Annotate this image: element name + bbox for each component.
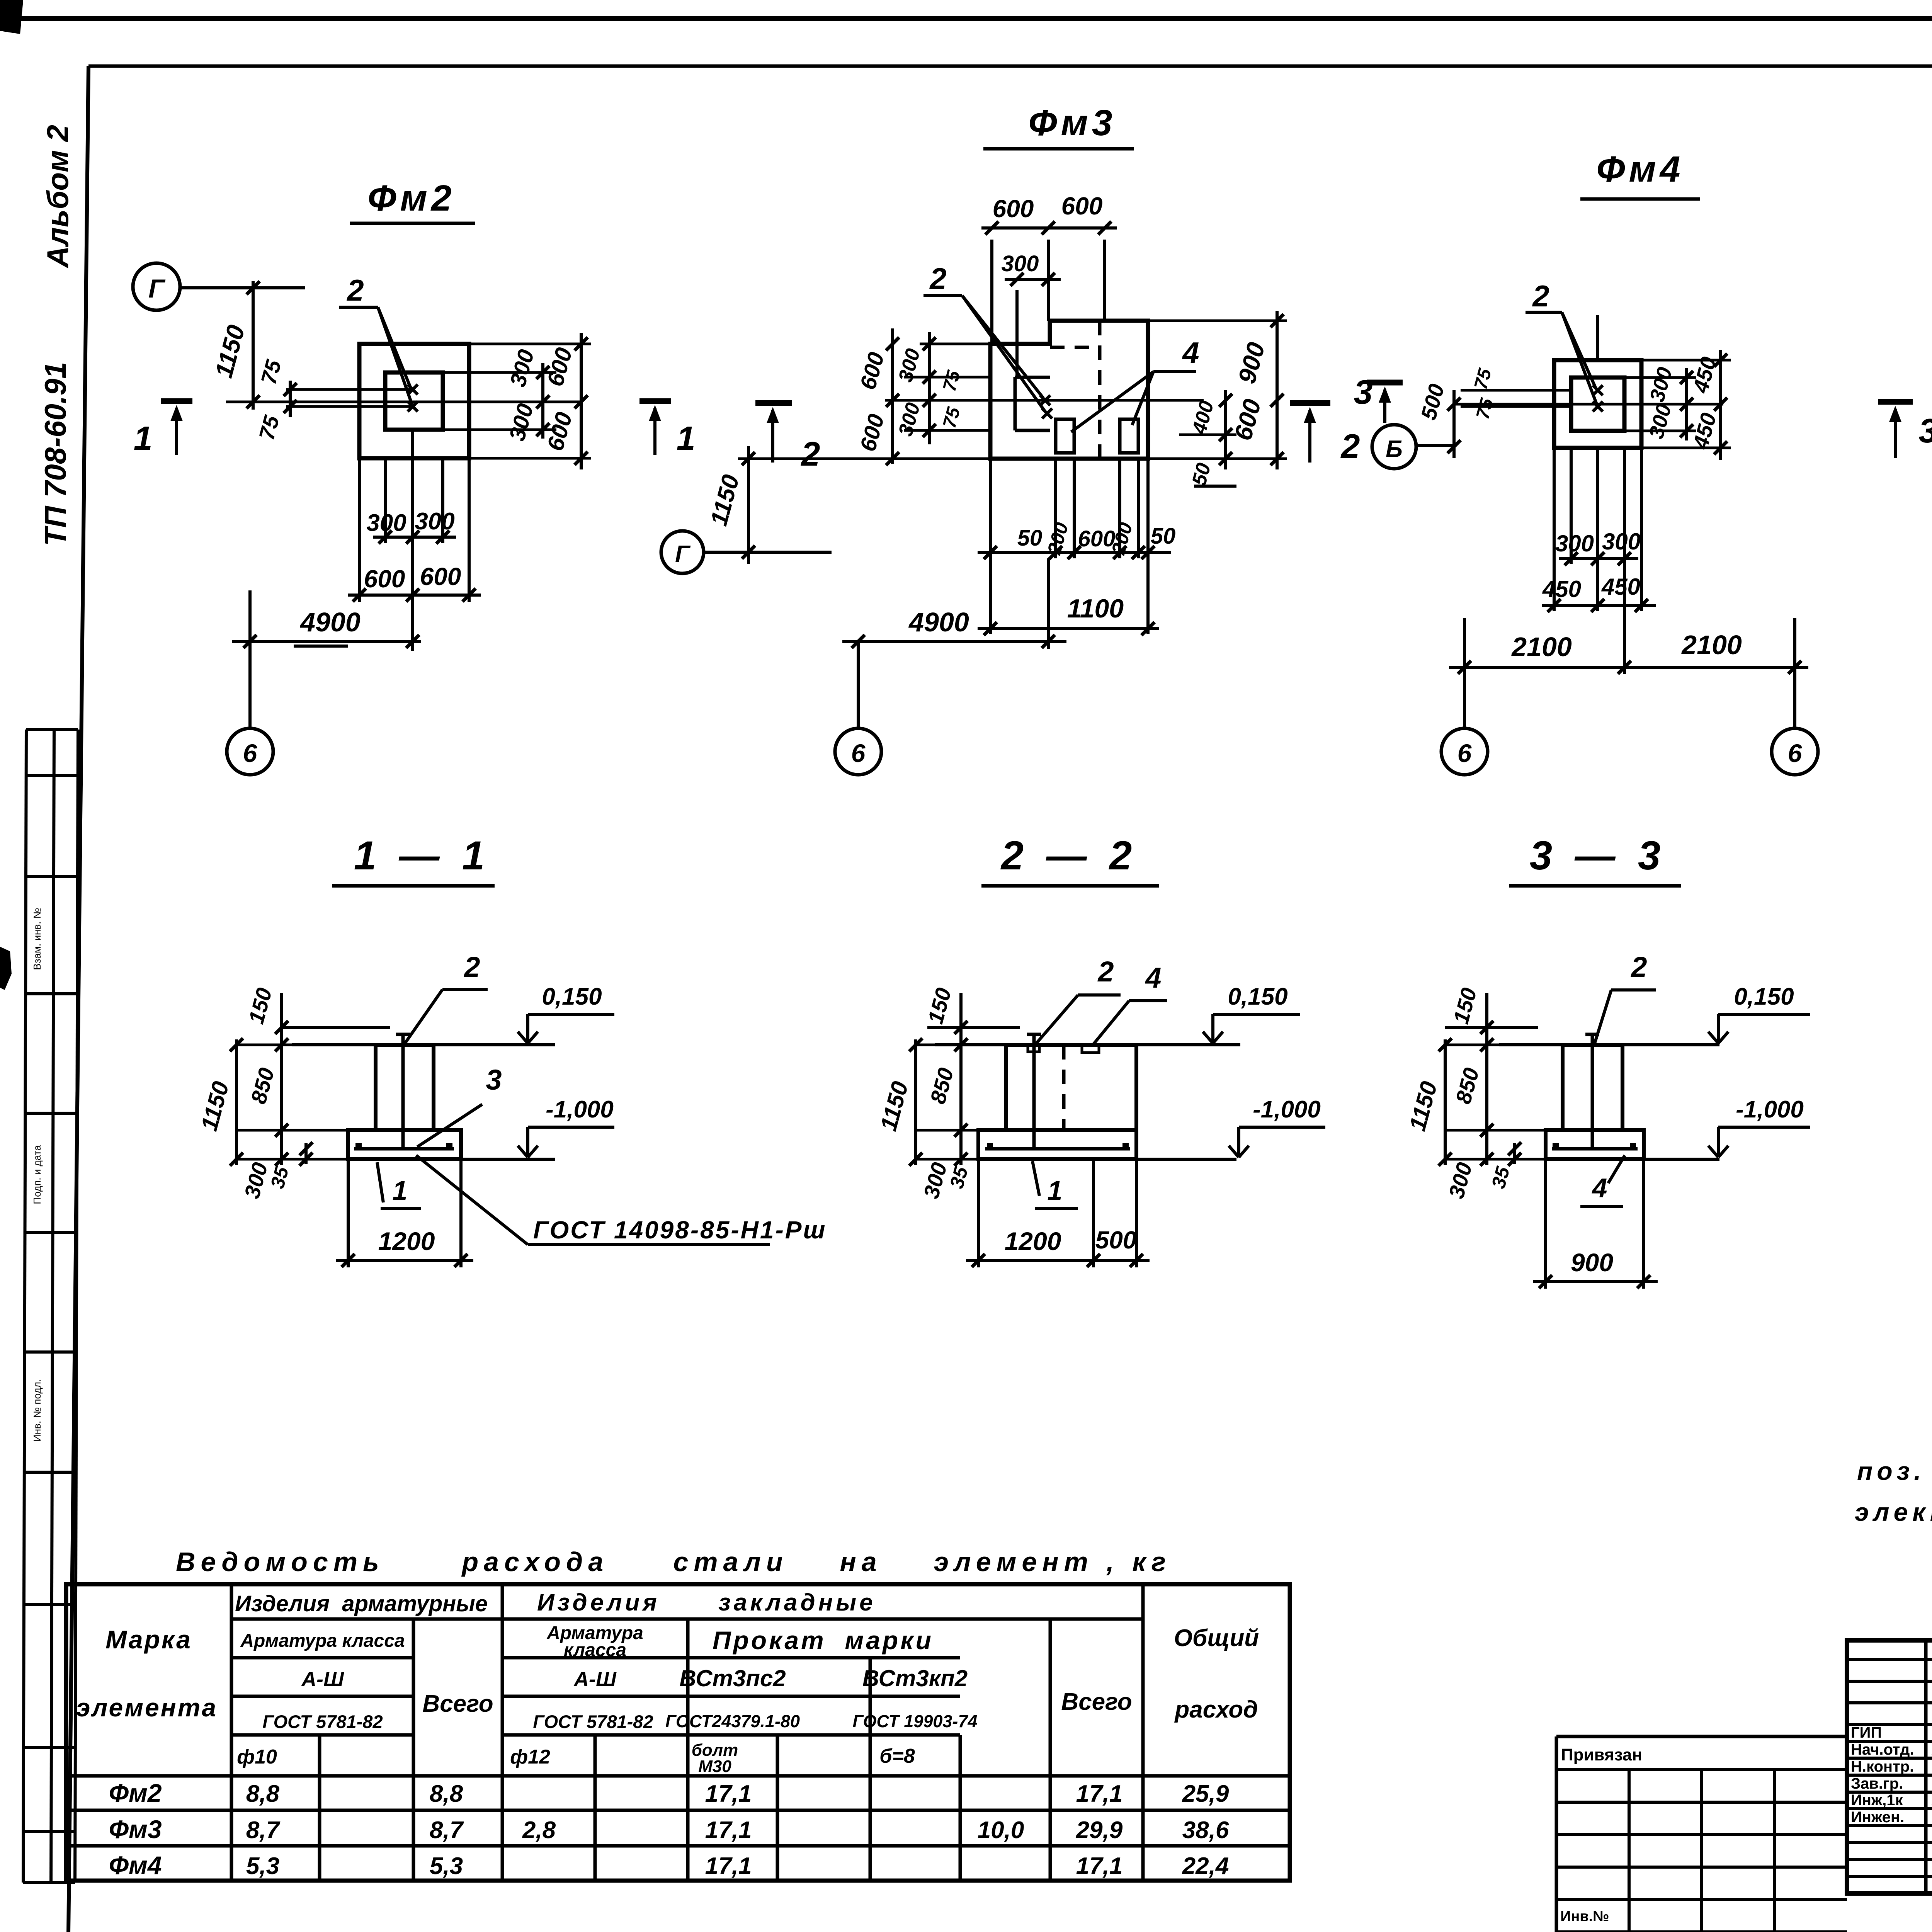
svg-text:Инж,1к: Инж,1к — [1851, 1792, 1903, 1809]
svg-text:900: 900 — [1571, 1248, 1613, 1277]
svg-text:1100: 1100 — [1067, 594, 1124, 623]
svg-text:50: 50 — [1151, 524, 1176, 549]
svg-text:1: 1 — [134, 419, 153, 457]
svg-text:4900: 4900 — [908, 607, 969, 637]
svg-text:класса: класса — [564, 1640, 626, 1660]
svg-text:А-Ш: А-Ш — [573, 1668, 617, 1691]
svg-text:2,8: 2,8 — [522, 1817, 556, 1844]
svg-text:0,150: 0,150 — [542, 983, 602, 1010]
svg-text:ТП 708-60.91: ТП 708-60.91 — [38, 362, 72, 546]
svg-text:5,3: 5,3 — [246, 1853, 279, 1879]
svg-text:Общий: Общий — [1174, 1625, 1259, 1651]
svg-text:0,150: 0,150 — [1734, 983, 1794, 1010]
svg-text:300: 300 — [1602, 529, 1641, 554]
svg-text:2: 2 — [929, 262, 946, 296]
svg-text:ф10: ф10 — [237, 1746, 277, 1768]
svg-text:450: 450 — [1601, 574, 1640, 600]
svg-text:-1,000: -1,000 — [1253, 1096, 1321, 1123]
svg-text:1200: 1200 — [378, 1227, 435, 1255]
svg-text:ГИП: ГИП — [1851, 1724, 1882, 1741]
svg-text:600: 600 — [993, 195, 1034, 223]
svg-text:600: 600 — [364, 565, 405, 593]
svg-text:-1,000: -1,000 — [546, 1096, 614, 1123]
svg-text:Прокат марки: Прокат марки — [713, 1626, 934, 1655]
svg-text:ВСт3пс2: ВСт3пс2 — [679, 1665, 786, 1691]
svg-text:8,8: 8,8 — [430, 1781, 463, 1807]
svg-text:ГОСТ 5781-82: ГОСТ 5781-82 — [262, 1711, 383, 1732]
svg-text:Зав.гр.: Зав.гр. — [1851, 1775, 1903, 1792]
svg-text:Арматура класса: Арматура класса — [240, 1631, 405, 1651]
svg-text:1 — 1: 1 — 1 — [354, 833, 485, 878]
svg-text:6: 6 — [1788, 739, 1803, 767]
svg-text:500: 500 — [1095, 1226, 1137, 1254]
svg-text:б=8: б=8 — [879, 1745, 915, 1767]
svg-text:Подп. и дата: Подп. и дата — [31, 1145, 43, 1204]
svg-text:Фм4: Фм4 — [1596, 149, 1684, 190]
svg-text:элемента: элемента — [76, 1693, 218, 1722]
svg-text:Нач.отд.: Нач.отд. — [1851, 1741, 1914, 1758]
svg-text:Альбом 2: Альбом 2 — [41, 125, 75, 269]
svg-text:50: 50 — [1017, 526, 1043, 551]
svg-text:2: 2 — [1340, 427, 1360, 465]
svg-text:300: 300 — [366, 510, 406, 536]
svg-text:2: 2 — [801, 435, 820, 473]
svg-text:300: 300 — [1555, 531, 1594, 556]
svg-text:Инв.№: Инв.№ — [1560, 1908, 1609, 1925]
svg-text:8,8: 8,8 — [246, 1781, 280, 1807]
svg-text:Инв. № подл.: Инв. № подл. — [31, 1379, 43, 1442]
svg-text:3 — 3: 3 — 3 — [1530, 833, 1660, 878]
svg-text:Г: Г — [675, 541, 691, 568]
svg-text:4: 4 — [1592, 1173, 1607, 1203]
svg-text:6: 6 — [243, 739, 258, 767]
svg-text:ГОСТ 14098-85-Н1-Рш: ГОСТ 14098-85-Н1-Рш — [533, 1216, 827, 1244]
svg-text:2: 2 — [463, 951, 480, 983]
svg-text:4900: 4900 — [299, 607, 361, 637]
svg-text:ВСт3кп2: ВСт3кп2 — [862, 1665, 968, 1691]
svg-text:1: 1 — [393, 1175, 408, 1206]
svg-text:2100: 2100 — [1511, 632, 1572, 662]
svg-text:Изделия закладные: Изделия закладные — [537, 1589, 876, 1616]
svg-text:Фм4: Фм4 — [109, 1851, 162, 1879]
svg-text:300: 300 — [1002, 251, 1039, 276]
svg-text:4: 4 — [1182, 336, 1199, 370]
svg-text:5,3: 5,3 — [430, 1853, 463, 1879]
svg-text:6: 6 — [1458, 739, 1472, 767]
svg-text:ГОСТ24379.1-80: ГОСТ24379.1-80 — [665, 1711, 800, 1731]
svg-text:-1,000: -1,000 — [1736, 1096, 1804, 1123]
svg-text:3: 3 — [1354, 373, 1373, 411]
svg-text:Фм2: Фм2 — [109, 1779, 162, 1807]
svg-text:0,150: 0,150 — [1228, 983, 1287, 1010]
svg-text:поз. 3 приварить к сетке для о: поз. 3 приварить к сетке для образования — [1857, 1457, 1932, 1485]
svg-text:6: 6 — [851, 739, 866, 767]
svg-text:25,9: 25,9 — [1182, 1781, 1229, 1807]
svg-text:Н.контр.: Н.контр. — [1851, 1758, 1914, 1775]
svg-text:2: 2 — [1630, 951, 1647, 983]
svg-text:2: 2 — [1532, 279, 1549, 313]
svg-text:2100: 2100 — [1681, 630, 1742, 660]
svg-text:Фм3: Фм3 — [1028, 102, 1116, 143]
svg-text:расход: расход — [1174, 1696, 1258, 1723]
svg-text:17,1: 17,1 — [705, 1817, 752, 1844]
svg-text:2: 2 — [346, 273, 364, 307]
svg-text:17,1: 17,1 — [705, 1853, 752, 1879]
svg-text:Б: Б — [1386, 436, 1403, 463]
svg-text:38,6: 38,6 — [1182, 1817, 1229, 1844]
svg-text:ГОСТ 5781-82: ГОСТ 5781-82 — [533, 1711, 653, 1732]
svg-text:2 — 2: 2 — 2 — [1000, 833, 1132, 878]
svg-text:2: 2 — [1097, 956, 1114, 988]
svg-text:300: 300 — [415, 508, 454, 535]
svg-text:4: 4 — [1145, 962, 1161, 994]
svg-text:8,7: 8,7 — [430, 1817, 464, 1844]
svg-text:ГОСТ 19903-74: ГОСТ 19903-74 — [853, 1711, 978, 1731]
svg-text:Ведомость расхода ста: Ведомость расхода стали на элемент , кг — [176, 1547, 1171, 1577]
svg-text:3: 3 — [486, 1064, 502, 1096]
svg-text:600: 600 — [420, 563, 461, 590]
svg-text:29,9: 29,9 — [1076, 1817, 1123, 1844]
svg-text:17,1: 17,1 — [1076, 1853, 1123, 1879]
svg-text:Г: Г — [148, 274, 166, 303]
svg-text:А-Ш: А-Ш — [301, 1668, 344, 1691]
svg-text:Взам. инв. №: Взам. инв. № — [31, 908, 43, 970]
svg-text:1: 1 — [1048, 1175, 1063, 1206]
svg-text:Фм2: Фм2 — [367, 178, 455, 219]
svg-text:1200: 1200 — [1005, 1227, 1061, 1255]
svg-text:Всего: Всего — [1061, 1689, 1132, 1715]
svg-text:22,4: 22,4 — [1182, 1853, 1229, 1879]
svg-text:М30: М30 — [698, 1757, 731, 1776]
svg-text:600: 600 — [1061, 192, 1103, 220]
svg-text:10,0: 10,0 — [978, 1817, 1024, 1844]
svg-text:1: 1 — [677, 419, 696, 457]
svg-text:17,1: 17,1 — [705, 1781, 752, 1807]
svg-text:электрической цепи молниезащит: электрической цепи молниезащиты. — [1855, 1498, 1932, 1526]
svg-text:ф12: ф12 — [510, 1746, 550, 1768]
svg-text:Привязан: Привязан — [1561, 1745, 1642, 1764]
svg-text:Изделия арматурные: Изделия арматурные — [235, 1591, 488, 1616]
svg-text:17,1: 17,1 — [1076, 1781, 1123, 1807]
svg-text:Фм3: Фм3 — [109, 1815, 162, 1844]
svg-text:Марка: Марка — [105, 1625, 192, 1654]
svg-text:450: 450 — [1542, 576, 1581, 602]
svg-text:8,7: 8,7 — [246, 1817, 281, 1844]
svg-text:Инжен.: Инжен. — [1851, 1809, 1904, 1826]
svg-text:3: 3 — [1919, 412, 1932, 450]
svg-text:Всего: Всего — [422, 1690, 493, 1717]
